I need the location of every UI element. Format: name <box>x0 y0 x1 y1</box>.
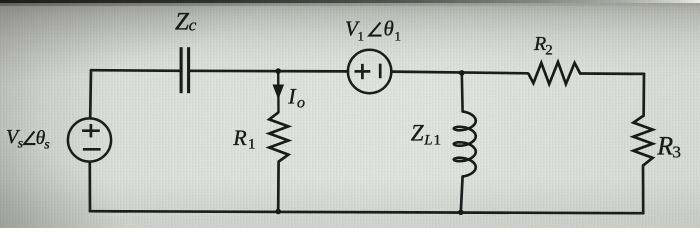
junction node: R1 top <box>275 68 281 74</box>
junction node: R1 bottom <box>275 209 281 215</box>
svg-text:3: 3 <box>672 143 681 162</box>
voltage source Vs <box>68 118 111 161</box>
svg-text:1: 1 <box>358 29 365 44</box>
label Zc <box>175 9 197 36</box>
svg-text:s: s <box>18 137 24 152</box>
label Io <box>287 83 305 111</box>
resistor R2 <box>528 62 580 84</box>
wire top middle (capacitor to V1 source) <box>189 69 348 72</box>
resistor R1 <box>269 112 288 161</box>
voltage source V1 <box>348 50 391 93</box>
wire top-right (R2 to corner) <box>580 72 644 75</box>
svg-text:1: 1 <box>248 137 256 153</box>
junction node: ZL1 bottom <box>458 210 464 216</box>
svg-text:L: L <box>423 133 432 149</box>
svg-text:I: I <box>287 83 297 108</box>
svg-text:R: R <box>533 33 546 55</box>
label R3 <box>656 131 681 161</box>
wire bottom horizontal <box>90 211 643 213</box>
svg-text:Z: Z <box>175 9 190 36</box>
resistor R3 <box>633 116 652 166</box>
svg-text:1: 1 <box>395 29 402 44</box>
wire top (V1 source to R2) <box>391 72 528 74</box>
inductor ZL1 <box>454 112 476 177</box>
wire right vertical (corner to R3) <box>642 74 645 116</box>
svg-text:R: R <box>656 131 673 160</box>
svg-text:R: R <box>232 125 247 150</box>
current arrow Io <box>273 85 285 100</box>
label V1 angle theta 1 <box>345 17 401 44</box>
wire left vertical lower (source to bottom corner) <box>88 162 91 211</box>
wire right vertical (R3 to bottom corner) <box>642 166 645 214</box>
wire ZL1 branch upper <box>460 73 463 112</box>
label R1 <box>232 125 255 153</box>
wire R1 branch upper <box>277 71 280 112</box>
svg-text:1: 1 <box>434 133 442 149</box>
svg-text:c: c <box>189 16 197 35</box>
capacitor Zc <box>181 47 189 93</box>
svg-text:s: s <box>44 138 50 153</box>
label ZL1 <box>411 120 441 148</box>
wire top-left horizontal <box>91 69 181 72</box>
junction node: ZL1 top <box>459 70 465 76</box>
wire R1 branch lower <box>277 162 280 212</box>
svg-text:2: 2 <box>545 43 553 59</box>
wire ZL1 branch lower <box>461 177 463 213</box>
wire left vertical upper (top corner to source) <box>89 70 93 118</box>
svg-text:θ: θ <box>384 17 394 41</box>
svg-text:o: o <box>297 95 305 112</box>
label R2 <box>533 33 553 58</box>
svg-text:Z: Z <box>411 120 424 145</box>
label Vs angle theta s <box>6 126 50 153</box>
